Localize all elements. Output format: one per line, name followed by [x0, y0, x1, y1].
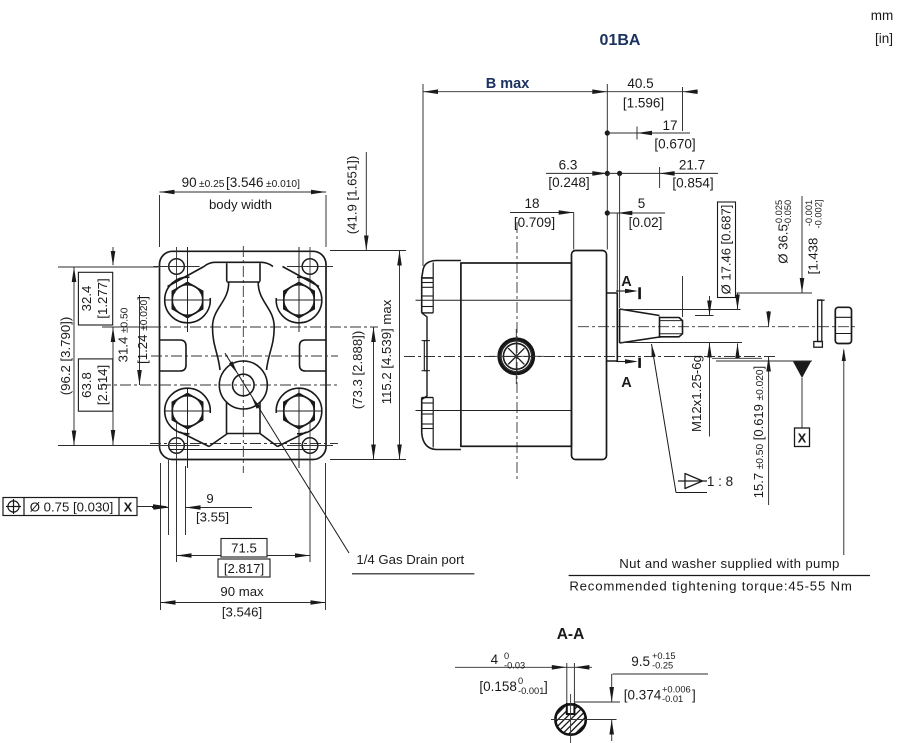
dimension 63.8 [2.514] boxed [78, 359, 112, 411]
body top plateau and shoulders [204, 262, 273, 266]
section A-A plane marks [638, 287, 641, 299]
dimension 31.4 vertical [139, 295, 141, 385]
svg-text:0: 0 [518, 676, 523, 686]
side view vertical centerline [516, 222, 518, 480]
dimension (96.2 [3.790]) left [58, 266, 158, 268]
datum triangle X [793, 362, 811, 379]
svg-text:]: ] [544, 679, 548, 694]
svg-text:90 max: 90 max [220, 584, 264, 599]
svg-text:M12x1.25-6g: M12x1.25-6g [689, 355, 704, 432]
svg-text:01BA: 01BA [600, 32, 641, 49]
svg-text:0: 0 [504, 651, 509, 661]
body neck inner line [227, 281, 260, 283]
pilot boss [607, 293, 618, 361]
wing boss lower-right [276, 388, 322, 434]
body left flank [213, 282, 229, 370]
svg-text:-0.002]: -0.002] [814, 200, 824, 229]
svg-text:±0.25: ±0.25 [199, 179, 225, 190]
dimension 32.4 [1.277] boxed [78, 272, 112, 325]
rear cover mid tab [424, 341, 427, 371]
svg-text:[1.277]: [1.277] [95, 278, 110, 318]
svg-text:[3.546]: [3.546] [222, 605, 262, 620]
svg-text:[0.854]: [0.854] [672, 176, 713, 191]
body bottom plateau and shoulders [209, 434, 278, 447]
drain port leader line [225, 353, 349, 553]
section keyway slot [566, 663, 568, 703]
svg-text:32.4: 32.4 [79, 286, 94, 312]
svg-text:[2.817]: [2.817] [224, 561, 264, 576]
dimension 40.5 [1.596] [683, 89, 698, 94]
body right flank [258, 282, 274, 370]
side drain port inner circle [503, 343, 529, 369]
feature control frame true position [3, 498, 137, 516]
svg-text:X: X [798, 431, 807, 446]
svg-text:[3.546: [3.546 [226, 175, 264, 190]
svg-text:Ø 17.46 [0.687]: Ø 17.46 [0.687] [719, 205, 734, 295]
svg-text:[0.158: [0.158 [479, 679, 517, 694]
side drain port outer ring [499, 339, 534, 374]
section shaft circle [555, 704, 585, 734]
front view bottom inner edge [169, 449, 316, 451]
svg-text:18: 18 [524, 196, 539, 211]
hex bolt at 187.5,300 [172, 282, 202, 317]
extension taper start [619, 173, 621, 308]
svg-text:+0.15: +0.15 [652, 651, 676, 661]
svg-text:A: A [621, 274, 632, 290]
svg-text:[0.248]: [0.248] [548, 175, 589, 190]
svg-text:-0.03: -0.03 [504, 661, 525, 671]
dimension 5 [0.02] [607, 212, 665, 214]
rear cover outline [422, 261, 461, 278]
corner hole at 176.5,445.5 [169, 438, 185, 454]
side notch left [160, 340, 186, 371]
svg-text:63.8: 63.8 [79, 372, 94, 398]
svg-text:5: 5 [638, 196, 646, 211]
section center cross [570, 694, 572, 743]
dimension 115.2 [4.539] max [399, 251, 401, 460]
svg-text:±0.010]: ±0.010] [266, 179, 300, 190]
dimension 90 max [3.546] [160, 463, 162, 610]
note underline [569, 575, 870, 577]
body split line lower [416, 410, 572, 412]
svg-text:X: X [124, 500, 133, 515]
svg-text:-0.001: -0.001 [518, 686, 544, 696]
rear cover mid recess [422, 313, 427, 400]
rear cover seal ridges top [422, 282, 434, 284]
corner hole at 310,445.5 [302, 438, 318, 454]
wing web line lower-right [278, 432, 307, 447]
corner hole at 310,266.5 [302, 259, 318, 275]
wing web line upper-right [283, 267, 320, 287]
svg-text:115.2 [4.539] max: 115.2 [4.539] max [379, 299, 394, 404]
svg-text:9.5: 9.5 [631, 654, 650, 669]
svg-text:(73.3 [2.888]): (73.3 [2.888]) [350, 331, 365, 409]
front view centerline y=443.5 [150, 443, 338, 445]
hex bolt at 299,300 [284, 282, 314, 317]
svg-text:Nut and washer supplied with p: Nut and washer supplied with pump [619, 556, 839, 571]
section keyway white fill [567, 704, 574, 714]
hex bolt at 299,411 [284, 393, 314, 428]
dimension (73.3 [2.888]) [373, 327, 375, 460]
thread minor lines [660, 320, 683, 322]
side view port centerline y=356.5 [404, 356, 776, 358]
hex bolt column lines [187, 247, 189, 332]
svg-text:Ø 36.5: Ø 36.5 [776, 224, 791, 264]
front view centerline vertical [242, 246, 244, 473]
body stem verticals [226, 403, 228, 434]
dimension 18 [0.709] [510, 212, 574, 214]
svg-text:(41.9 [1.651]): (41.9 [1.651]) [345, 156, 360, 234]
mounting flange plate [572, 251, 607, 460]
svg-text:[0.02]: [0.02] [629, 215, 663, 230]
corner hole at 176.5,266.5 [169, 259, 185, 275]
svg-text:1/4 Gas Drain port: 1/4 Gas Drain port [356, 552, 464, 567]
dimension (41.9 [1.651]) [365, 152, 367, 251]
dimension B max [422, 84, 424, 266]
front view main centerline y=385 [100, 384, 340, 386]
underline of drain port label [352, 573, 474, 575]
dimension 17 [0.670] [607, 132, 690, 134]
taper ratio leader 1:8 [652, 344, 677, 493]
washer [818, 300, 822, 342]
svg-text:[0.709]: [0.709] [514, 215, 555, 230]
dimension 6.3 [0.248] [546, 172, 718, 174]
svg-text:[0.670]: [0.670] [654, 137, 695, 152]
side drain port X mark [508, 348, 524, 364]
hex bolt at 187.5,411 [172, 393, 202, 428]
svg-text:-0.050: -0.050 [783, 200, 793, 226]
side view main body [461, 263, 572, 446]
datum X box [795, 428, 810, 447]
dimension 9 [3.55] [168, 460, 170, 535]
section dimension 4 slot width [455, 666, 592, 668]
side drain port crosshair [515, 329, 517, 384]
side drain port middle circle [501, 341, 531, 371]
wing boss upper-right [276, 277, 322, 323]
drain port inner circle [233, 374, 255, 396]
svg-text:A-A: A-A [557, 626, 585, 643]
drain boss outer circle [219, 361, 267, 409]
svg-text:+0.006: +0.006 [662, 685, 691, 695]
svg-text:A: A [621, 375, 632, 391]
threaded shaft end [660, 317, 683, 339]
svg-text:9: 9 [206, 491, 213, 506]
body neck verticals [226, 263, 228, 281]
dimension 15.7 [0.619] [768, 311, 770, 327]
corner hole vertical line x=176.5 bottom [176, 422, 178, 465]
svg-text:[in]: [in] [875, 31, 893, 46]
dimension Ø17.46 arrows [709, 296, 711, 316]
svg-text:4: 4 [491, 652, 499, 667]
svg-text:Recommended tightening torque:: Recommended tightening torque:45-55 Nm [569, 579, 852, 594]
svg-text:[2.514]: [2.514] [95, 365, 110, 405]
svg-text:-0.01: -0.01 [662, 694, 683, 704]
svg-text:-0.001: -0.001 [804, 200, 814, 226]
svg-text:71.5: 71.5 [231, 541, 257, 556]
front view centerline y=327 [150, 326, 378, 328]
shaft centerline y=326.7 [578, 326, 858, 328]
svg-text:21.7: 21.7 [679, 158, 705, 173]
svg-text:body width: body width [209, 197, 272, 212]
svg-text:-0.25: -0.25 [652, 661, 673, 671]
corner hole vertical line x=310 bottom [309, 422, 311, 465]
front view centerline y=356 [151, 355, 338, 357]
section dimension 9.5 depth [613, 673, 709, 675]
nut [835, 307, 851, 343]
svg-text:40.5: 40.5 [627, 76, 653, 91]
corner hole vertical line x=176.5 top [176, 247, 178, 290]
svg-text:[3.55]: [3.55] [196, 510, 229, 525]
tapered shaft [620, 309, 660, 343]
taper diameter dimension line [737, 293, 739, 310]
body split line upper [416, 299, 572, 301]
dimension 21.7 [0.854] [659, 167, 661, 188]
svg-text:6.3: 6.3 [559, 158, 578, 173]
svg-text:90: 90 [182, 175, 197, 190]
dimension Ø36.5 leader [801, 196, 803, 293]
feature control frame leader [137, 506, 166, 508]
taper symbol [685, 474, 703, 489]
svg-text:(96.2 [3.790]): (96.2 [3.790]) [58, 317, 73, 395]
svg-text:B max: B max [486, 76, 530, 92]
taper extension lines [620, 309, 741, 311]
svg-text:mm: mm [871, 8, 894, 23]
nut leader line [843, 350, 845, 555]
wing boss lower-left [165, 388, 211, 434]
svg-text:[0.374: [0.374 [624, 688, 662, 703]
svg-text:Ø 0.75 [0.030]: Ø 0.75 [0.030] [30, 500, 114, 515]
svg-text:17: 17 [662, 118, 677, 133]
junction dots on flange face extension [605, 130, 610, 135]
side notch right [300, 340, 326, 371]
wing web line lower-left [180, 432, 209, 447]
corner hole vertical line x=310 top [309, 247, 311, 290]
svg-text:[1.596]: [1.596] [623, 96, 664, 111]
dimension 71.5 [2.817] boxed [177, 555, 311, 557]
wing boss upper-left [165, 277, 211, 323]
dimension Ø17.46 boxed label [718, 202, 736, 298]
svg-text:]: ] [692, 688, 696, 703]
front view flange outline [160, 251, 327, 459]
wing web line upper-left [168, 267, 205, 287]
dimension Ø36.5 extension lines [737, 292, 813, 294]
rear cover seal ridges bottom [422, 397, 434, 399]
extension lines right of front flange [330, 250, 406, 252]
dimension 90 body width top [159, 195, 161, 247]
svg-text:[1.438: [1.438 [806, 238, 821, 275]
svg-text:1 : 8: 1 : 8 [707, 474, 733, 489]
